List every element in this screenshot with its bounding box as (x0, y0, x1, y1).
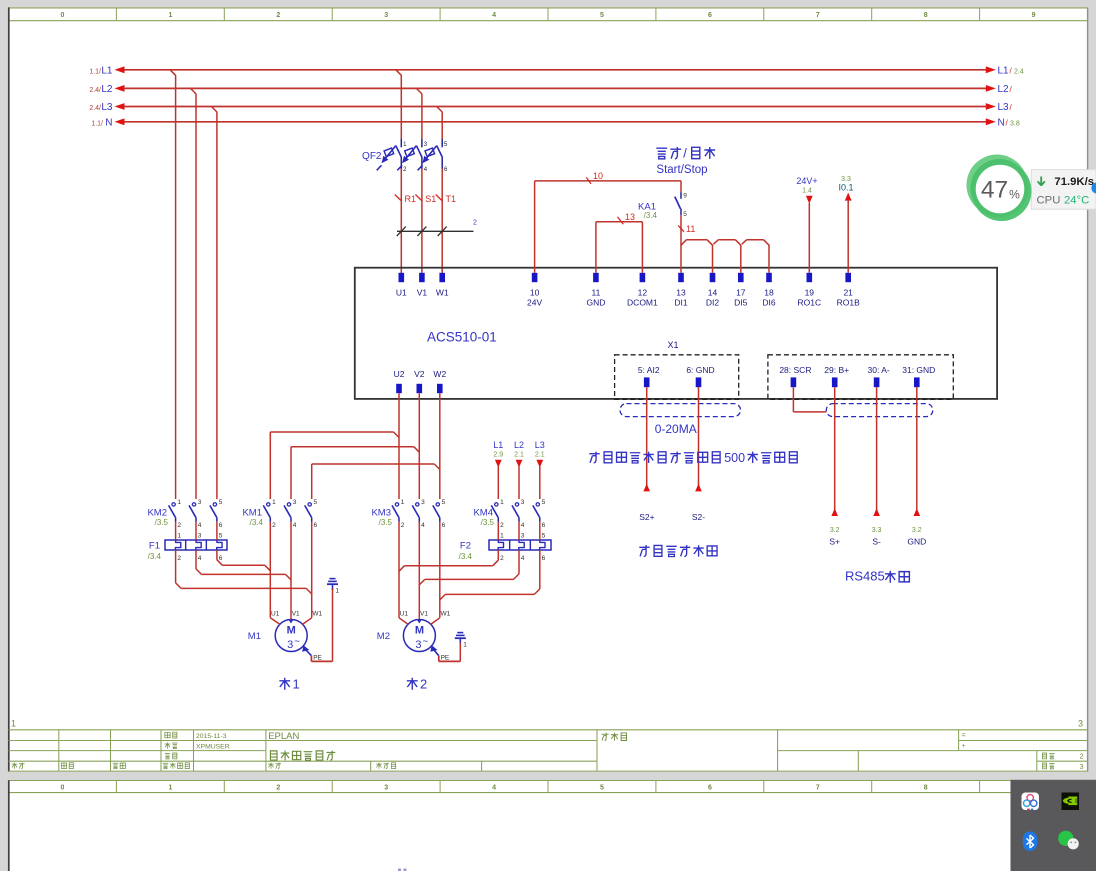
svg-text:QF2: QF2 (362, 151, 382, 162)
tray icon nvidia (1062, 793, 1080, 811)
wire to DI1 (680, 245, 682, 273)
svg-text:3: 3 (415, 639, 421, 651)
svg-text:4: 4 (521, 555, 525, 562)
svg-text:6: 6 (542, 555, 546, 562)
drive ACS510-01 block outline (355, 268, 997, 399)
svg-text:0-20MA: 0-20MA (655, 422, 697, 436)
svg-text:U1: U1 (396, 287, 407, 297)
svg-text:S1: S1 (425, 194, 436, 204)
svg-text:5: 5 (683, 211, 687, 218)
wire to DI6 (768, 245, 770, 273)
wire GND signal S2- (698, 387, 700, 491)
svg-text:/3.5: /3.5 (379, 518, 393, 527)
svg-text:4: 4 (198, 522, 202, 529)
shield pill rs485 (826, 404, 933, 417)
page 1 ruler strip (9, 7, 1088, 9)
svg-text:/3.4: /3.4 (250, 518, 264, 527)
svg-text:%: % (1009, 188, 1020, 202)
drive terminal 21 RO1B (845, 273, 851, 282)
wire F1-6 to M1 U1 (216, 550, 218, 560)
drive terminal V1 (419, 273, 425, 282)
svg-text:2: 2 (1080, 754, 1084, 761)
svg-text:5: 5 (600, 12, 604, 19)
terminal strip X1 box analog (615, 355, 739, 400)
contactor KM4 (473, 499, 545, 529)
bus line L1 (124, 69, 987, 71)
svg-text:X1: X1 (668, 340, 679, 350)
svg-text:28: SCR: 28: SCR (779, 365, 811, 375)
wire name R1 (395, 195, 402, 202)
relay contact KA1 (638, 181, 687, 220)
bus L3 left arrow (115, 103, 125, 110)
wire F2-2 to M2 U1 (497, 550, 499, 560)
svg-text:DI5: DI5 (734, 298, 748, 308)
svg-text:/3.5: /3.5 (155, 518, 169, 527)
svg-text:/: / (683, 146, 687, 161)
svg-text:30: A-: 30: A- (867, 365, 889, 375)
svg-text:KM3: KM3 (371, 507, 391, 518)
svg-text:M2: M2 (377, 631, 390, 642)
svg-text:3: 3 (198, 532, 202, 539)
wire rs485 S- (876, 387, 878, 516)
wire rs485 S+ (834, 387, 836, 516)
svg-text:/3.4: /3.4 (644, 211, 658, 220)
contactor KM3 (371, 499, 445, 529)
svg-text:L1: L1 (101, 65, 113, 76)
svg-text:2.1: 2.1 (514, 452, 524, 459)
svg-text:DI6: DI6 (762, 298, 776, 308)
svg-text:21: 21 (843, 287, 853, 297)
svg-text:1: 1 (177, 499, 181, 506)
svg-text:R1: R1 (405, 194, 417, 204)
svg-text:U1: U1 (271, 610, 280, 617)
svg-text:18: 18 (764, 287, 774, 297)
svg-text:2.1: 2.1 (535, 452, 545, 459)
note 500ohm chinese (589, 452, 599, 463)
svg-text:6: 6 (314, 522, 318, 529)
svg-text:10: 10 (593, 171, 603, 181)
svg-text:4: 4 (421, 522, 425, 529)
wire KM3-2 to M2 (398, 522, 400, 618)
svg-text:2.4/: 2.4/ (89, 87, 101, 94)
svg-text:L1: L1 (998, 65, 1010, 76)
label pump2 chinese (407, 678, 418, 690)
svg-text:XPMUSER: XPMUSER (196, 743, 230, 750)
svg-text:T1: T1 (446, 194, 457, 204)
bus L1 right arrow (986, 66, 996, 73)
page 2 ruler strip (9, 780, 1088, 782)
svg-text:8: 8 (924, 785, 928, 792)
svg-text:5: 5 (314, 499, 318, 506)
svg-text:3: 3 (521, 532, 525, 539)
svg-text:2: 2 (276, 785, 280, 792)
svg-text:2: 2 (473, 220, 477, 227)
svg-text:500: 500 (724, 451, 745, 465)
title block texts (165, 732, 170, 737)
svg-text:1: 1 (336, 588, 340, 595)
svg-text:29: B+: 29: B+ (824, 365, 849, 375)
svg-text:9: 9 (1032, 12, 1036, 19)
svg-text:2: 2 (272, 522, 276, 529)
svg-text:L3: L3 (535, 440, 545, 450)
svg-text:5: 5 (219, 499, 223, 506)
svg-text:1: 1 (500, 499, 504, 506)
svg-text:4: 4 (293, 522, 297, 529)
svg-text:2: 2 (500, 555, 504, 562)
wire U2 down (398, 393, 400, 499)
terminal strip X1 box rs485 (768, 355, 953, 400)
svg-text:3.3: 3.3 (872, 527, 882, 534)
svg-text:DCOM1: DCOM1 (627, 298, 658, 308)
svg-text:=: = (962, 733, 966, 740)
svg-text:11: 11 (686, 224, 695, 234)
svg-text:19: 19 (805, 287, 815, 297)
wire number 11 (678, 226, 684, 232)
drive terminal 11 GND (593, 273, 599, 282)
svg-text:W1: W1 (312, 610, 322, 617)
svg-text:/3.4: /3.4 (459, 552, 473, 561)
svg-text:W2: W2 (433, 369, 446, 379)
svg-text:1: 1 (168, 12, 172, 19)
svg-text:V1: V1 (417, 287, 428, 297)
svg-text:7: 7 (816, 785, 820, 792)
svg-text:L3: L3 (998, 102, 1010, 113)
svg-text:4: 4 (521, 522, 525, 529)
wire SCR to shield (792, 387, 794, 412)
thermal overload relay F1 (148, 522, 227, 562)
wire drop L2 to KM2 (191, 88, 197, 94)
wire S1 QF2 to drive (421, 169, 423, 274)
svg-text:3: 3 (384, 12, 388, 19)
wire DI1-DI2-DI5-DI6 jumper (681, 240, 769, 246)
svg-text:KM2: KM2 (147, 507, 167, 518)
svg-text:L1: L1 (493, 440, 503, 450)
wire name S1 (415, 195, 422, 202)
drive terminal 13 DI1 (678, 273, 684, 282)
svg-text:5: 5 (442, 499, 446, 506)
svg-text:47: 47 (981, 177, 1008, 204)
svg-text:1: 1 (177, 532, 181, 539)
cpu widget tooltip panel (1031, 170, 1096, 210)
svg-text:1: 1 (500, 532, 504, 539)
tray icon bluetooth (1023, 832, 1037, 852)
svg-text:3: 3 (1080, 764, 1084, 771)
wire KM3-4 to M2 (418, 522, 420, 618)
svg-text:RO1C: RO1C (797, 298, 821, 308)
svg-text:CPU: CPU (1037, 195, 1061, 207)
svg-text:24V: 24V (527, 298, 542, 308)
svg-text:KM1: KM1 (242, 507, 262, 518)
svg-text:14: 14 (708, 287, 718, 297)
svg-text:24°C: 24°C (1064, 195, 1089, 207)
svg-text:1: 1 (11, 719, 16, 729)
svg-text:~: ~ (294, 637, 300, 648)
wire F1-4 to M1 V1 (195, 550, 197, 569)
svg-text:13: 13 (625, 212, 635, 222)
svg-text:L2: L2 (514, 440, 524, 450)
wire AI2 signal S2+ (646, 387, 648, 491)
svg-text:6: GND: 6: GND (686, 365, 714, 375)
wire number 10 (586, 177, 591, 184)
svg-text:V2: V2 (414, 369, 425, 379)
svg-text:3: 3 (421, 499, 425, 506)
faint next-page mark (398, 869, 401, 871)
wire rs485 GND (916, 387, 918, 516)
label feedback pressure signal chinese (639, 545, 649, 556)
bus L2 right arrow (986, 85, 996, 92)
svg-text:3: 3 (198, 499, 202, 506)
svg-text:3: 3 (287, 639, 293, 651)
svg-text:U1: U1 (400, 610, 409, 617)
svg-text:M: M (287, 625, 296, 637)
svg-text:5: 5 (219, 532, 223, 539)
branch W2 to KM1 (434, 464, 440, 470)
svg-text:Start/Stop: Start/Stop (656, 164, 707, 176)
svg-text:1: 1 (293, 677, 300, 692)
drive terminal 19 RO1C (807, 273, 813, 282)
wire T1 QF2 to drive (441, 169, 443, 274)
wire drop L3 to QF2 (437, 107, 443, 113)
svg-text:2015-11-3: 2015-11-3 (196, 733, 227, 740)
bus L3 right arrow (986, 103, 996, 110)
svg-text:S-: S- (872, 537, 881, 547)
svg-text:8: 8 (924, 12, 928, 19)
svg-text:0: 0 (61, 785, 65, 792)
svg-text:24V+: 24V+ (796, 176, 817, 186)
svg-text:3.8: 3.8 (1010, 120, 1020, 127)
svg-text:RO1B: RO1B (837, 298, 860, 308)
svg-text:4: 4 (198, 555, 202, 562)
svg-text:U2: U2 (394, 369, 405, 379)
motor M2 PE wire (430, 645, 437, 652)
svg-text:9: 9 (683, 193, 687, 200)
wire 13 (GND to DCOM1 bridge) (595, 222, 597, 273)
svg-text:2: 2 (177, 555, 181, 562)
label Start/Stop chinese (656, 148, 667, 159)
page 2 sheet (9, 780, 1088, 871)
drive terminal 17 DI5 (738, 273, 744, 282)
wire 11 (KA1 to DI1) (680, 215, 682, 245)
svg-text:L3: L3 (101, 102, 113, 113)
svg-text:13: 13 (676, 287, 686, 297)
wire W2 down (439, 393, 441, 499)
svg-text:3: 3 (384, 785, 388, 792)
svg-text:1.1/: 1.1/ (91, 120, 103, 127)
svg-text:5: 5 (542, 532, 546, 539)
motor M1 PE wire (302, 645, 309, 652)
bus line L3 (124, 106, 987, 108)
cpu widget green ring (967, 155, 1028, 216)
contactor KM1 (242, 499, 317, 529)
svg-text:GND: GND (907, 537, 926, 547)
svg-text:3.2: 3.2 (830, 527, 840, 534)
svg-text:2: 2 (401, 522, 405, 529)
svg-text:3: 3 (293, 499, 297, 506)
svg-text:6: 6 (542, 522, 546, 529)
svg-text:17: 17 (736, 287, 746, 297)
drive terminal 18 DI6 (766, 273, 772, 282)
wire drop L1 to KM2 (170, 70, 176, 76)
svg-text:1: 1 (272, 499, 276, 506)
svg-text:I0.1: I0.1 (838, 183, 853, 193)
svg-text:5: AI2: 5: AI2 (638, 365, 660, 375)
svg-text:11: 11 (591, 287, 600, 297)
contactor KM2 (147, 499, 222, 529)
branch U2 to KM1 (394, 432, 400, 438)
bus L2 left arrow (115, 85, 125, 92)
bus line L2 (124, 87, 987, 89)
svg-text:/3.5: /3.5 (481, 518, 495, 527)
drive terminal 12 DCOM1 (640, 273, 646, 282)
svg-text:W1: W1 (436, 287, 449, 297)
svg-text:2: 2 (177, 522, 181, 529)
wire F1-2 to M1 W1 (175, 550, 177, 583)
wire R1 QF2 to drive (400, 169, 402, 274)
wire drop L3 to KM2 (211, 107, 217, 113)
svg-text:3: 3 (521, 499, 525, 506)
svg-text:10: 10 (530, 287, 540, 297)
wire KM1-4 to M1 (290, 522, 292, 618)
svg-text:2.4/: 2.4/ (89, 105, 101, 112)
svg-text:RS485: RS485 (845, 569, 885, 584)
svg-text:6: 6 (442, 522, 446, 529)
tray icon wechat (1058, 831, 1079, 850)
svg-text:1.1/: 1.1/ (89, 68, 101, 75)
svg-text:F1: F1 (149, 541, 160, 552)
bus N right arrow (986, 118, 996, 125)
svg-text:1: 1 (401, 499, 405, 506)
svg-text:F2: F2 (460, 541, 471, 552)
taskbar tray flyout panel (1011, 780, 1096, 871)
page 1 right border (1087, 7, 1089, 771)
svg-text:L2: L2 (101, 84, 113, 95)
svg-text:0: 0 (61, 12, 65, 19)
svg-text:N: N (105, 117, 112, 128)
svg-text:6: 6 (219, 555, 223, 562)
svg-text:3: 3 (1078, 719, 1083, 729)
tray icon nutstore (1022, 793, 1040, 811)
cable marker 2 (397, 230, 474, 232)
svg-text:ACS510-01: ACS510-01 (427, 330, 497, 345)
svg-text:EPLAN: EPLAN (268, 731, 299, 742)
floating blue ball widget (1091, 182, 1096, 193)
svg-text:GND: GND (586, 298, 605, 308)
title block grid (9, 730, 1088, 771)
svg-text:6: 6 (708, 785, 712, 792)
svg-text:S2-: S2- (692, 512, 705, 522)
svg-text:DI2: DI2 (706, 298, 720, 308)
wire number 13 (618, 217, 624, 224)
page 1 left border (8, 7, 10, 771)
svg-text:PE: PE (441, 655, 450, 662)
svg-text:2: 2 (420, 677, 427, 692)
svg-text:7: 7 (816, 12, 820, 19)
motor M2 (377, 610, 451, 651)
svg-text:2.4: 2.4 (1014, 68, 1024, 75)
bus L1 left arrow (115, 66, 125, 73)
wire KM1-2 to M1 (269, 522, 271, 618)
wire name T1 (436, 195, 443, 202)
svg-text:5: 5 (542, 499, 546, 506)
wire drop L2 to QF2 (416, 88, 422, 94)
drive terminal 14 DI2 (710, 273, 716, 282)
ground symbol M1 (330, 578, 336, 580)
circuit breaker QF2 (362, 139, 448, 173)
svg-text:M: M (415, 625, 424, 637)
wire F2-4 to M2 V1 (518, 550, 520, 574)
svg-text:S+: S+ (829, 537, 840, 547)
svg-text:12: 12 (638, 287, 648, 297)
label pump1 chinese (279, 678, 290, 690)
drive terminal 10 24V (532, 273, 538, 282)
svg-text:~: ~ (422, 637, 428, 648)
wire drop L1 to QF2 (396, 70, 402, 76)
svg-text:2: 2 (276, 12, 280, 19)
bus line N (124, 121, 987, 123)
drive terminal W1 (439, 273, 445, 282)
shield pill analog (620, 404, 741, 417)
branch V2 to KM1 (414, 447, 420, 453)
ground symbol M2 (457, 632, 463, 634)
svg-text:31: GND: 31: GND (902, 365, 935, 375)
wire F2-6 to M2 W1 (539, 550, 541, 589)
svg-text:V1: V1 (420, 610, 428, 617)
svg-text:1.4: 1.4 (802, 188, 812, 195)
bus N left arrow (115, 118, 125, 125)
thermal overload relay F2 (459, 522, 551, 562)
svg-text:+: + (962, 743, 966, 750)
svg-text:L2: L2 (998, 84, 1010, 95)
svg-text:6: 6 (219, 522, 223, 529)
svg-text:DI1: DI1 (674, 298, 688, 308)
svg-text:1: 1 (463, 642, 467, 649)
svg-text:2.9: 2.9 (493, 452, 503, 459)
wire KM3-6 to M2 (439, 522, 441, 618)
wire 10 (24V to KA1) (534, 181, 536, 273)
wire to DI2 (712, 245, 714, 273)
cpu widget net speed text (1038, 177, 1045, 186)
svg-text:3.2: 3.2 (912, 527, 922, 534)
svg-text:/3.4: /3.4 (148, 552, 162, 561)
svg-text:PE: PE (313, 655, 322, 662)
svg-text:4: 4 (492, 785, 496, 792)
wire to DI5 (740, 245, 742, 273)
svg-text:6: 6 (708, 12, 712, 19)
page 2 left border (8, 780, 10, 871)
svg-text:1: 1 (168, 785, 172, 792)
svg-text:W1: W1 (441, 610, 451, 617)
motor M1 (248, 610, 323, 651)
svg-text:5: 5 (600, 785, 604, 792)
wire V2 down (418, 393, 420, 499)
drive terminal U1 (399, 273, 405, 282)
svg-text:2: 2 (500, 522, 504, 529)
svg-text:N: N (998, 117, 1005, 128)
svg-text:V1: V1 (292, 610, 300, 617)
svg-text:KM4: KM4 (473, 507, 493, 518)
svg-text:71.9K/s: 71.9K/s (1054, 176, 1094, 188)
svg-text:M1: M1 (248, 631, 261, 642)
svg-text:S2+: S2+ (639, 512, 654, 522)
svg-text:4: 4 (492, 12, 496, 19)
wire KM1-6 to M1 (311, 522, 313, 618)
